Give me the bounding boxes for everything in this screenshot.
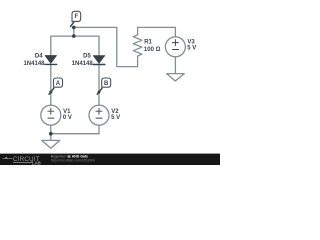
svg-text:D4: D4 xyxy=(35,54,43,60)
svg-text:V1: V1 xyxy=(63,109,71,115)
junction node F dot xyxy=(72,26,76,30)
svg-text:0 V: 0 V xyxy=(63,115,72,121)
wire D5 anode drop xyxy=(98,36,100,56)
V1 minus sign xyxy=(48,117,54,119)
svg-text:LAB: LAB xyxy=(32,160,41,165)
diode D5 xyxy=(93,56,104,64)
svg-text:V2: V2 xyxy=(111,109,119,115)
junction dot at distribution tee xyxy=(72,34,76,38)
node A flag leader xyxy=(49,88,54,94)
wire bottom horizontal V1 to V2 xyxy=(51,133,99,135)
node A attach dot xyxy=(49,91,52,94)
wire D5 cathode to V2 xyxy=(98,64,100,105)
CircuitLab logo xyxy=(3,156,41,166)
svg-text:R1: R1 xyxy=(144,39,152,45)
ground under V3 xyxy=(167,74,185,81)
wire V1 bottom lead xyxy=(50,125,52,134)
wire F vertical stub xyxy=(73,27,75,36)
wire V3 top lead xyxy=(174,27,176,36)
svg-text:100 Ω: 100 Ω xyxy=(144,47,161,53)
wire distribution horizontal xyxy=(51,35,99,37)
V3 plus sign xyxy=(172,40,178,46)
V1 plus sign xyxy=(48,108,54,114)
svg-text:B: B xyxy=(104,81,109,87)
ground under V1 xyxy=(42,140,60,148)
watermark bar xyxy=(0,154,220,165)
V3 minus sign xyxy=(173,49,179,51)
svg-text:5 V: 5 V xyxy=(187,46,196,52)
junction dot at V1 ground xyxy=(49,132,53,136)
node B flag leader xyxy=(97,88,102,94)
wire top horizontal from node F to corner xyxy=(74,26,117,28)
svg-text:D5: D5 xyxy=(83,54,91,60)
V2 minus sign xyxy=(96,117,102,119)
voltage source V3 circle xyxy=(165,37,185,57)
node A flag box xyxy=(54,78,63,87)
svg-text:1N4148: 1N4148 xyxy=(72,61,94,67)
wire left loop vertical down to R1 bottom xyxy=(117,27,138,66)
wire R1 top to V3 top xyxy=(138,26,176,28)
wire D4 anode drop xyxy=(50,36,52,55)
node F flag leader xyxy=(71,22,74,27)
node B flag box xyxy=(102,78,111,87)
wire V2 bottom lead xyxy=(98,125,100,134)
svg-text:1N4148: 1N4148 xyxy=(23,61,45,67)
voltage source V1 circle xyxy=(41,105,61,125)
node F flag box xyxy=(72,11,81,21)
wire V3 bottom lead to ground xyxy=(174,57,176,74)
voltage source V2 circle xyxy=(89,105,109,125)
diode D4 xyxy=(45,56,56,64)
V2 plus sign xyxy=(96,108,102,114)
wire ground lead under V1 xyxy=(50,134,52,141)
wire D4 cathode to V1 xyxy=(50,64,52,105)
svg-text:F: F xyxy=(75,14,79,20)
svg-text:5 V: 5 V xyxy=(111,115,120,121)
svg-text:A: A xyxy=(56,81,61,87)
node B attach dot xyxy=(98,91,101,94)
resistor R1 body xyxy=(133,27,142,66)
svg-text:http://circuitlab.com/c26z9hb: http://circuitlab.com/c26z9hb xyxy=(51,159,95,163)
svg-text:V3: V3 xyxy=(187,39,195,45)
